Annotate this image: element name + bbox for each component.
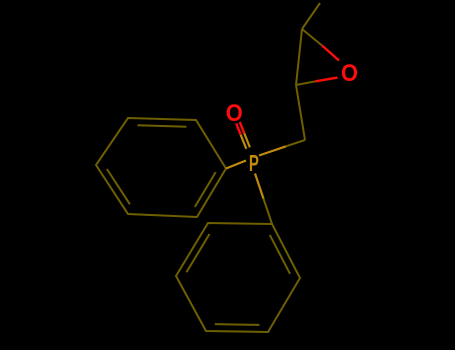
P=O double bond line 1 gold half [244, 133, 250, 147]
svg-text:P: P [249, 150, 259, 176]
bond P to CH2 chain, C half [286, 140, 305, 146]
bond C3 to epoxide O, O half (red) [322, 46, 339, 61]
bond P to ring2 ipso carbon, P half [255, 174, 264, 199]
benzene ring 2 inner double bond bottom [215, 323, 260, 326]
bond P to ring1 ipso carbon (goldenrod) [226, 161, 246, 169]
benzene ring 1 (left phenyl) outline [96, 118, 226, 217]
bond CH2 to epoxide C2 [296, 85, 305, 140]
bond epoxide C2 to C3 [296, 29, 302, 85]
svg-text:O: O [341, 60, 358, 87]
P=O double bond line 2 red half [236, 123, 241, 134]
benzene ring 1 inner double bond top [138, 125, 187, 126]
P=O double bond line 1 red half [240, 122, 245, 133]
benzene ring 2 inner double bond upper-right [270, 235, 290, 274]
benzene ring 1 inner double bond right [195, 172, 216, 207]
benzene ring 1 inner double bond lower-left [107, 169, 130, 204]
benzene ring 2 inner double bond upper-left [187, 234, 210, 272]
svg-text:O: O [226, 100, 243, 127]
bond C2 to epoxide O, O half (red) [316, 78, 338, 82]
P=O double bond line 2 gold half [241, 135, 247, 149]
bond P to CH2 chain, P half [259, 146, 286, 155]
methyl stub on epoxide C3 [302, 3, 320, 29]
bond P to ring2 ipso carbon, C half [264, 199, 273, 224]
benzene ring 2 (bottom phenyl) outline [176, 223, 300, 332]
bond C3 to epoxide O, C half [302, 29, 322, 46]
bond C2 to epoxide O, C half [296, 81, 316, 85]
